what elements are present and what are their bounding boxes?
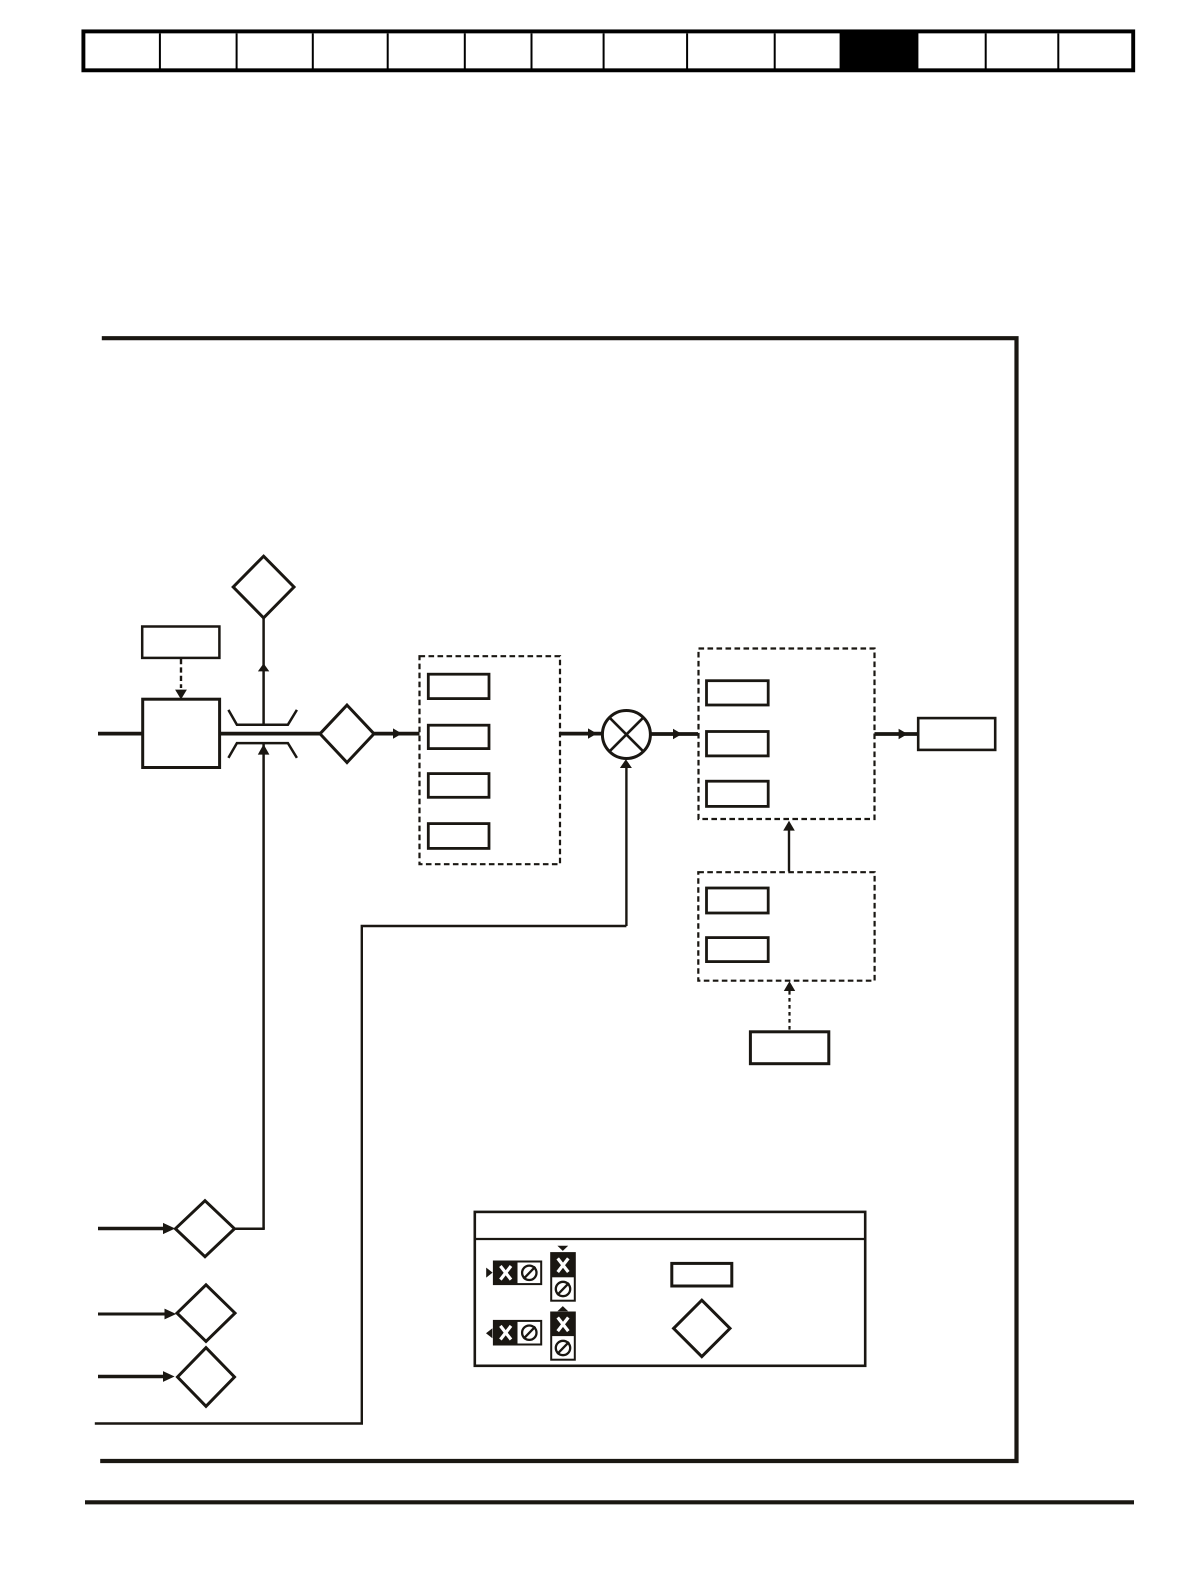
input wire 1 (bottom left) [98, 1227, 168, 1231]
legend vertical cell pair 2 frame [551, 1313, 575, 1360]
legend no-entry glyph v1 [556, 1282, 570, 1296]
arrowhead up into DB2 [783, 821, 795, 831]
menu tab divider 8 [686, 33, 688, 68]
footer rule [85, 1500, 1134, 1504]
menu tab divider 2 [236, 33, 238, 68]
parameter rect DB3-2 [707, 938, 769, 962]
legend key box [475, 1212, 865, 1366]
parameter rect DB1-2 [428, 725, 489, 748]
arrowhead right into output box [899, 729, 908, 739]
wire: D2 to dashed block DB1 [374, 732, 420, 736]
legend horizontal cell pair 2 frame [494, 1321, 541, 1345]
dashed block DB2 [699, 649, 875, 820]
limit clamp lower bracket [228, 743, 297, 758]
legend horizontal cell pair 1 frame [494, 1262, 541, 1285]
menu tab divider 6 [531, 33, 533, 68]
long wire from lower junction up into clamp [262, 743, 265, 1229]
arrowhead right into DL1 [163, 1223, 175, 1234]
dashed wire: bottom box up to DB3 [788, 991, 790, 1032]
legend vertical pair 2 black cell [551, 1313, 575, 1337]
arrowhead up below clamp [258, 744, 270, 754]
legend cell pair 2 black cell [494, 1321, 518, 1345]
legend no-entry glyph v2 [556, 1341, 570, 1355]
multiplier cross stroke a [610, 718, 644, 752]
legend output arrow glyph (left) [486, 1328, 492, 1338]
legend diamond sample [674, 1300, 730, 1356]
legend input arrow glyph (right) [486, 1268, 492, 1278]
limit clamp upper bracket [228, 710, 297, 725]
arrowhead right into DB1 [393, 728, 402, 738]
input diamond DL2 [177, 1285, 235, 1342]
menu tab divider 11 [1057, 33, 1059, 68]
wire: B1 through limit clamp to diamond D2 [220, 732, 321, 736]
dashed block DB3 [698, 872, 874, 981]
input wire 3 (bottom left) [98, 1375, 166, 1379]
wire: clamp up to diamond D1 [262, 617, 265, 725]
menu tab divider 7 [603, 33, 605, 68]
output parameter box [918, 718, 995, 750]
parameter rect DB2-2 [707, 732, 769, 756]
arrowhead right into multiplier [588, 728, 597, 738]
multiplier cross stroke b [610, 718, 644, 752]
legend no-entry glyph 2b [522, 1326, 536, 1340]
dashed wire: R1 down to block B1 [180, 659, 182, 688]
wire: feedback up into multiplier [625, 767, 627, 926]
legend vertical pair 1 black cell [551, 1253, 575, 1277]
parameter rect DB3-1 [707, 888, 769, 913]
parameter rect DB2-1 [707, 681, 769, 705]
legend parameter rectangle sample [672, 1263, 732, 1286]
diagram frame border [100, 338, 1016, 1461]
wire: DB3 up to DB2 [788, 830, 790, 872]
dashed block DB1 [420, 656, 561, 864]
wire: DB1 to multiplier [560, 732, 602, 736]
parameter box R1 (reference) [142, 627, 219, 658]
legend vertical cell pair 1 frame [551, 1253, 575, 1301]
legend X glyph v2 [558, 1318, 569, 1332]
parameter rect DB1-1 [428, 674, 489, 698]
multiplier circle U1 [602, 711, 650, 759]
input wire 2 (bottom left) [98, 1313, 168, 1316]
menu tab divider 10 [985, 33, 987, 68]
menu tab divider 4 [387, 33, 389, 68]
menu tab bar frame [83, 31, 1133, 70]
legend title separator [475, 1238, 865, 1240]
wire: DB2 to output box [875, 732, 919, 736]
bottom parameter box [750, 1032, 828, 1064]
arrowhead right into DL3 [163, 1371, 175, 1382]
legend cell pair 1 black cell [494, 1262, 518, 1285]
read-only diamond D1 [233, 556, 294, 618]
arrowhead right into DL2 [165, 1309, 177, 1320]
menu tab divider 9 [774, 33, 776, 68]
menu tab divider 5 [464, 33, 466, 68]
active menu tab (filled) [840, 32, 919, 71]
legend down triangle over column 1 [557, 1246, 568, 1251]
parameter rect DB2-3 [707, 781, 769, 806]
legend X glyph 1a [500, 1266, 511, 1280]
arrowhead up into DB3 [784, 981, 795, 991]
wire: DL1 to long vertical wire [235, 1227, 265, 1230]
wire: multiplier to dashed block DB2 [651, 732, 699, 736]
arrowhead up mid-wire to D1 [258, 663, 269, 671]
input diamond DL3 [178, 1348, 235, 1407]
block B1 (reference selector) [143, 699, 220, 767]
legend X glyph 2a [500, 1326, 511, 1340]
feedback wire elbow run [95, 926, 627, 1424]
legend X glyph v1 [558, 1258, 569, 1272]
selector diamond D2 on main wire [320, 705, 374, 762]
arrowhead up into multiplier [620, 759, 632, 768]
menu tab divider 3 [312, 33, 314, 68]
arrowhead right into DB2 [673, 729, 682, 739]
arrowhead down into B1 [175, 690, 187, 700]
wire: reference input [98, 732, 144, 736]
legend up triangle over column 2 [557, 1306, 568, 1311]
menu tab divider 1 [159, 33, 161, 68]
parameter rect DB1-3 [428, 774, 489, 798]
input diamond DL1 [175, 1201, 234, 1257]
legend no-entry glyph 1b [522, 1266, 536, 1280]
parameter rect DB1-4 [428, 824, 489, 849]
